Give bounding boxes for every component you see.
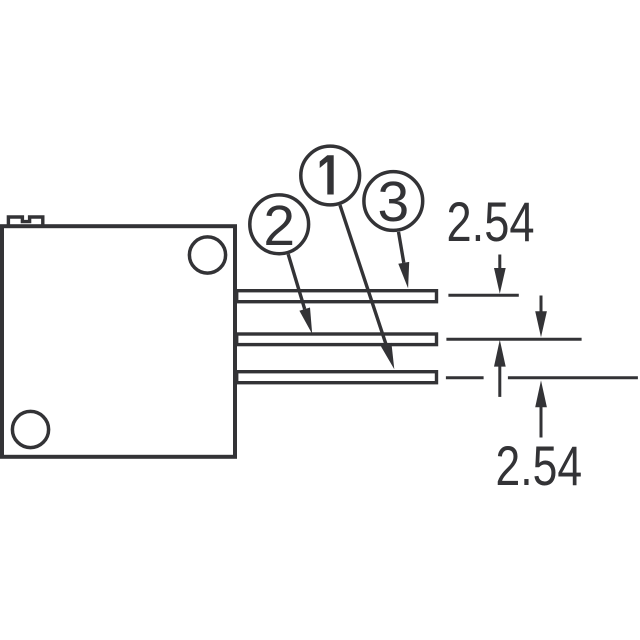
- mounting hole bottom-left: [12, 411, 48, 447]
- balloon 1 circle: [301, 146, 360, 205]
- extension line pin 3 centerline (right segment): [508, 376, 638, 379]
- svg-text:2.54: 2.54: [496, 434, 583, 497]
- leader from balloon 3 to pin 1: [398, 232, 409, 289]
- extension line pin 1 centerline: [448, 294, 518, 297]
- svg-text:3: 3: [377, 170, 409, 234]
- dimension arrow up to pin3 line: [535, 380, 547, 437]
- potentiometer body outline: [2, 226, 235, 457]
- leader from balloon 1 to pin 3: [340, 205, 394, 369]
- dimension arrow down to pin2 line: [535, 296, 547, 338]
- balloon 3 circle: [364, 172, 423, 231]
- adjustment screw tab (top-left slotted tab): [8, 217, 42, 225]
- pin 3 (bottom lead): [237, 372, 437, 383]
- pin 1 (top lead): [237, 291, 437, 302]
- svg-text:2: 2: [263, 194, 295, 258]
- pin 2 (middle lead): [237, 334, 437, 345]
- balloon 2 circle: [250, 195, 309, 254]
- dimension arrow up to pin2 line: [494, 340, 506, 397]
- leader from balloon 2 to pin 2: [288, 254, 312, 334]
- mounting hole top-right: [189, 237, 225, 273]
- dimension arrow down to pin1 line: [494, 255, 506, 294]
- svg-text:2.54: 2.54: [447, 190, 535, 253]
- extension line pin 2 centerline: [446, 338, 581, 341]
- balloon 1 digit: [320, 155, 334, 194]
- extension line pin 3 centerline (left segment): [446, 376, 484, 379]
